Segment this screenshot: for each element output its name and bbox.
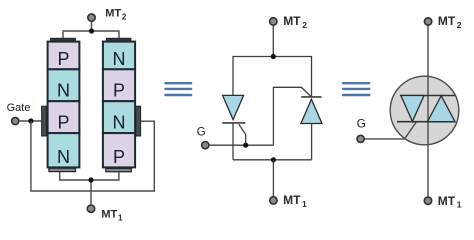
wire: top rail	[233, 57, 312, 97]
equivalence symbol 2	[342, 82, 370, 96]
layer P1 (left column)	[48, 42, 80, 70]
wire: MT2 top tee to both columns	[63, 22, 119, 39]
triac MT1 bar	[397, 121, 455, 123]
wire: D2 anode down to bottom rail	[311, 124, 313, 160]
svg-text:MT: MT	[438, 194, 456, 208]
electrode top cap, left column	[51, 38, 76, 41]
svg-text:2: 2	[302, 20, 307, 30]
svg-text:G: G	[197, 127, 206, 139]
wire: D1 gate stub	[239, 124, 246, 145]
svg-text:2: 2	[457, 20, 462, 30]
wire: bottom caps to MT1 junction	[60, 172, 119, 205]
layer N2 (left column)	[48, 133, 80, 167]
junction at MT2 tee	[89, 28, 94, 33]
triac right triangle (points up)	[428, 96, 456, 122]
svg-text:P: P	[113, 81, 125, 101]
junction on G rail	[243, 143, 248, 148]
svg-text:MT: MT	[438, 14, 456, 28]
terminal MT2 (equivalent)	[270, 18, 277, 25]
wire: D1 cathode down to bottom rail	[232, 123, 234, 160]
terminal MT1 (symbol)	[424, 197, 431, 204]
terminal Gate	[12, 117, 19, 124]
svg-text:MT: MT	[105, 7, 121, 19]
wire: bottom rail	[233, 159, 312, 161]
SCR D2 triangle (points up)	[301, 99, 322, 123]
wire: MT2 down to top rail	[272, 25, 274, 56]
junction at MT1 tee (structure)	[88, 177, 93, 182]
wire: G rail	[209, 144, 273, 146]
electrode bottom cap, right column	[106, 168, 132, 171]
layer P3 (right column)	[103, 69, 135, 101]
layer P2 (left column)	[48, 101, 80, 133]
svg-text:P: P	[57, 49, 69, 69]
svg-text:N: N	[113, 49, 126, 69]
layer N4 (right column)	[103, 101, 135, 133]
gate electrode tab (left side of P2)	[42, 106, 47, 136]
triac body circle	[390, 76, 459, 145]
svg-text:1: 1	[457, 200, 462, 210]
wire: bottom rail down to MT1	[272, 160, 274, 197]
svg-text:G: G	[357, 117, 366, 131]
svg-text:1: 1	[302, 199, 307, 209]
svg-text:2: 2	[122, 12, 127, 21]
svg-text:N: N	[57, 81, 70, 101]
SCR D2 cathode bar	[301, 96, 321, 98]
svg-text:P: P	[57, 113, 69, 133]
wire: G feed up to D2 gate	[273, 87, 311, 145]
svg-text:N: N	[113, 113, 126, 133]
electrode bottom cap, left column	[49, 168, 76, 171]
wire: gate loop around bottom to right tab	[31, 121, 154, 191]
triac MT2 bar	[400, 95, 455, 97]
terminal MT2 (structure)	[88, 14, 95, 21]
wire: gate to tab	[19, 120, 42, 122]
svg-text:MT: MT	[101, 208, 117, 220]
equivalence symbol 1	[164, 82, 192, 96]
wire: MT2 to MT1 main vertical	[427, 25, 429, 196]
junction on top rail	[271, 54, 276, 59]
layer N1 (left column)	[48, 69, 80, 101]
electrode top cap, right column	[106, 38, 131, 41]
svg-text:P: P	[113, 147, 125, 167]
terminal MT1 (structure)	[87, 205, 94, 212]
terminal G (equivalent)	[202, 142, 209, 149]
triac left triangle (points down)	[401, 96, 424, 122]
layer N3 (right column)	[103, 42, 135, 70]
svg-text:1: 1	[118, 213, 123, 222]
terminal G (symbol)	[357, 135, 364, 142]
layer P4 (right column)	[103, 133, 135, 167]
svg-text:MT: MT	[283, 193, 301, 207]
SCR D1 triangle (anode up, points down)	[223, 95, 244, 119]
junction on bottom rail	[271, 157, 276, 162]
junction on gate wire	[28, 118, 33, 123]
wire: gate into triac	[364, 122, 416, 139]
electrode tab (right side of N4)	[136, 106, 141, 136]
SCR D1 cathode bar	[222, 122, 245, 124]
terminal MT2 (symbol)	[424, 18, 431, 25]
svg-text:Gate: Gate	[7, 102, 31, 114]
terminal MT1 (equivalent)	[270, 197, 277, 204]
svg-text:MT: MT	[283, 14, 301, 28]
svg-text:N: N	[57, 147, 70, 167]
